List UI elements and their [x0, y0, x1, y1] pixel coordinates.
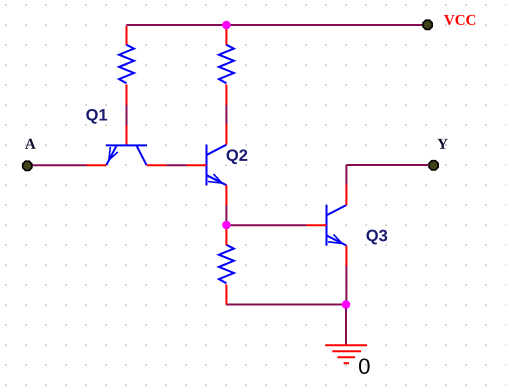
junction node rail-R2	[222, 21, 231, 30]
label A	[25, 139, 36, 149]
wire R1 top to rail	[126, 26, 128, 45]
label 0 ground net	[359, 358, 370, 374]
resistor R1	[119, 45, 134, 84]
wire VCC rail top	[127, 24, 423, 26]
wire R3 bottom to ground node	[226, 304, 346, 306]
label VCC	[444, 15, 475, 25]
wire ground node to ground	[345, 305, 347, 346]
wire R1 to Q1 base	[126, 105, 128, 125]
junction node ground	[342, 300, 351, 309]
wire R2 bottom pin	[225, 85, 227, 106]
label Y	[437, 139, 447, 149]
wire Y corner down	[345, 165, 347, 185]
transistor Q1	[87, 145, 167, 165]
port Y terminal	[429, 161, 438, 170]
wire A port to Q1 emitter	[32, 164, 87, 166]
port VCC terminal	[423, 20, 432, 29]
wire Q1 base pin	[126, 125, 128, 145]
wire node to Q3 base	[226, 224, 306, 226]
transistor Q3	[306, 185, 346, 266]
label Q2	[227, 149, 248, 164]
junction node Q2 emitter	[222, 221, 231, 230]
wire Q2 emitter to node	[225, 205, 227, 226]
resistor R2	[219, 45, 234, 84]
wire R3 top pin	[225, 225, 227, 245]
wire Y horizontal	[346, 164, 428, 166]
wire Q3 emitter down	[345, 265, 347, 305]
wire R2 to Q2 collector	[225, 105, 227, 125]
transistor Q2	[186, 124, 226, 206]
label Q3	[366, 230, 387, 245]
resistor R3	[219, 245, 234, 284]
ground symbol 0	[325, 345, 367, 363]
port A terminal	[23, 161, 32, 170]
wire R2 top to rail	[225, 26, 227, 45]
label Q1	[86, 109, 107, 124]
wire R3 bottom pin	[225, 285, 227, 305]
wire R1 bottom pin	[126, 85, 128, 106]
wire Q1 collector to Q2 base	[166, 164, 186, 166]
